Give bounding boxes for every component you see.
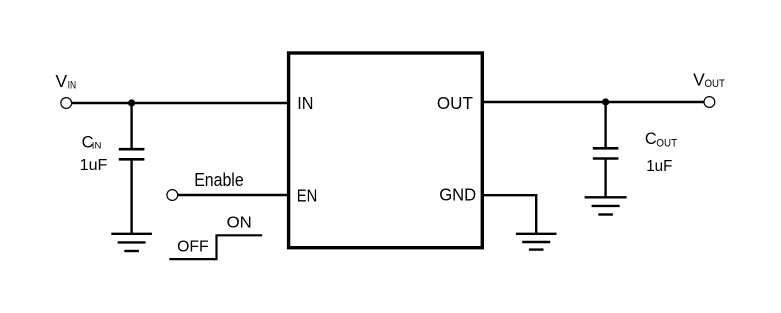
svg-text:V: V xyxy=(693,70,705,90)
svg-text:1uF: 1uF xyxy=(80,157,108,174)
svg-text:GND: GND xyxy=(439,184,476,204)
svg-text:1uF: 1uF xyxy=(646,158,672,175)
svg-text:OUT: OUT xyxy=(705,78,726,90)
wire junction to CIN top plate xyxy=(130,103,132,149)
svg-text:Enable: Enable xyxy=(194,169,244,190)
node VOUT terminal xyxy=(704,97,715,108)
wire Enable to EN pin xyxy=(178,194,289,196)
node Enable terminal xyxy=(167,190,178,201)
wire COUT bottom plate to ground xyxy=(604,159,606,198)
svg-text:OUT: OUT xyxy=(437,93,473,113)
ground (below GND pin) xyxy=(516,234,557,250)
wire GND pin to ground xyxy=(482,195,536,234)
node VIN label xyxy=(56,71,77,91)
wire OUT pin to VOUT xyxy=(482,101,704,103)
wire VIN to IN pin xyxy=(72,102,289,104)
capacitor C1 (CIN) plates xyxy=(119,149,145,159)
enable step waveform trace xyxy=(169,235,262,259)
wire CIN bottom plate to ground xyxy=(130,159,132,234)
svg-text:OUT: OUT xyxy=(656,137,677,149)
ground (below CIN) xyxy=(111,234,152,251)
svg-text:IN: IN xyxy=(68,79,77,91)
junction at COUT xyxy=(602,98,609,105)
svg-text:EN: EN xyxy=(297,186,318,206)
ground (below COUT) xyxy=(585,197,627,214)
svg-text:ON: ON xyxy=(227,215,252,232)
junction at CIN xyxy=(128,99,135,106)
op-amp U1 (regulator IC body) xyxy=(289,53,483,248)
svg-text:IN: IN xyxy=(297,93,313,113)
wire junction to COUT top plate xyxy=(604,102,606,148)
node VIN terminal xyxy=(61,98,72,109)
capacitor C2 (COUT) label xyxy=(645,130,678,149)
svg-text:OFF: OFF xyxy=(177,237,209,255)
svg-text:C: C xyxy=(645,130,657,148)
capacitor C2 (COUT) plates xyxy=(593,148,619,158)
capacitor C1 (CIN) label xyxy=(82,133,102,151)
svg-text:V: V xyxy=(56,71,68,91)
node VOUT label xyxy=(693,70,725,91)
svg-text:IN: IN xyxy=(92,139,102,150)
